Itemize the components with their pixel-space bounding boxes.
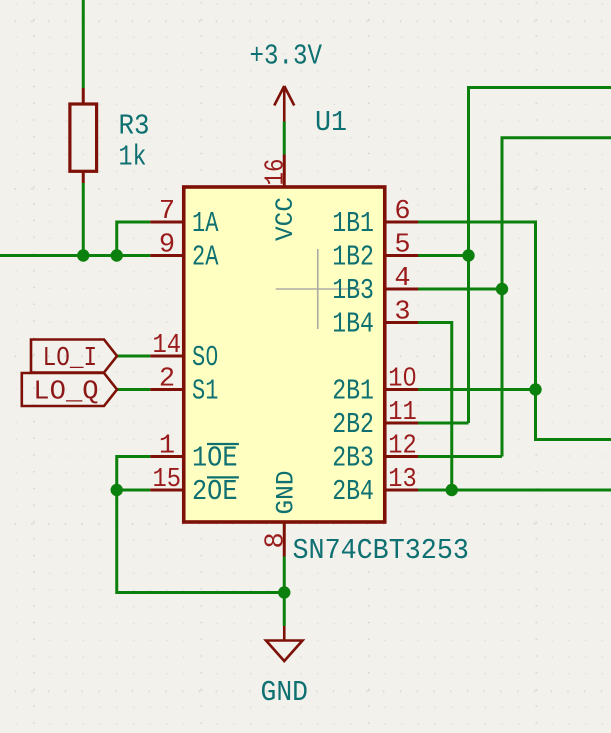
svg-text:LO_I: LO_I <box>43 344 98 374</box>
wire: LO_I to S0 <box>117 355 150 358</box>
pin 2 stub <box>150 388 184 391</box>
pin 6 stub <box>385 221 419 224</box>
svg-text:2B3: 2B3 <box>332 442 374 475</box>
svg-text:4: 4 <box>394 264 410 294</box>
svg-text:GND: GND <box>272 471 301 515</box>
svg-text:7: 7 <box>159 197 175 227</box>
svg-text:2B2: 2B2 <box>332 408 374 441</box>
svg-text:15: 15 <box>153 465 182 495</box>
svg-text:SN74CBT3253: SN74CBT3253 <box>293 534 469 567</box>
svg-text:8: 8 <box>262 532 292 548</box>
junction 1A/2A <box>111 249 123 261</box>
wire: 2B4 to right edge <box>416 489 611 492</box>
wire: 1B4 down to 2B4 <box>416 323 452 491</box>
svg-text:5: 5 <box>394 230 410 260</box>
svg-text:11: 11 <box>388 398 417 428</box>
junction 1B2/2B2 <box>462 249 474 261</box>
pin 15 stub <box>150 489 184 492</box>
wire: 1OE loop down to GND net <box>117 457 285 593</box>
wire: 2B1 <box>416 388 536 391</box>
op IC body U1 <box>184 187 385 522</box>
wire: 2A horizontal from left edge <box>0 254 150 257</box>
pin 5 stub <box>385 254 419 257</box>
pin 9 stub <box>150 254 184 257</box>
svg-text:S1: S1 <box>192 375 218 408</box>
pin 3 stub <box>385 321 419 324</box>
svg-text:2B1: 2B1 <box>332 375 374 408</box>
wire: 2B3 <box>416 455 503 458</box>
svg-text:9: 9 <box>159 230 175 260</box>
wire: VCC pin16 up <box>283 122 286 155</box>
junction R3/2A <box>77 249 89 261</box>
svg-text:2B4: 2B4 <box>332 475 374 508</box>
pin 7 stub <box>150 221 184 224</box>
pin 8 stub <box>283 523 286 557</box>
wire: 2B2 <box>416 422 469 425</box>
global label LO_I <box>31 340 117 373</box>
junction 1B4/2B4 <box>446 484 458 496</box>
svg-text:1B2: 1B2 <box>332 241 374 274</box>
svg-text:+3.3V: +3.3V <box>250 40 323 73</box>
wire: 1B2 to vertical <box>416 254 469 257</box>
svg-text:GND: GND <box>261 676 309 709</box>
junction GND net <box>278 586 290 598</box>
svg-text:6: 6 <box>394 197 410 227</box>
svg-text:1A: 1A <box>192 207 219 240</box>
wire: 2OE stub <box>117 489 151 492</box>
svg-text:1OE: 1OE <box>192 442 238 475</box>
resistor R3 bottom pin <box>82 171 85 183</box>
ground symbol <box>266 626 303 661</box>
pin 12 stub <box>385 455 419 458</box>
svg-text:13: 13 <box>388 465 417 495</box>
resistor R3 top pin <box>82 88 85 104</box>
svg-text:1: 1 <box>159 431 175 461</box>
svg-text:12: 12 <box>388 431 417 461</box>
svg-text:10: 10 <box>388 364 417 394</box>
junction 1OE/2OE <box>111 484 123 496</box>
svg-text:LO_Q: LO_Q <box>33 378 98 408</box>
wire: 1B3 to vertical <box>416 288 503 291</box>
svg-text:3: 3 <box>394 297 410 327</box>
wire: vertical net B2 with exit top <box>469 88 611 424</box>
pin 4 stub <box>385 288 419 291</box>
pin 13 stub <box>385 489 419 492</box>
svg-text:R3: R3 <box>119 110 150 143</box>
wire: GND pin8 down <box>283 557 286 627</box>
pin 14 stub <box>150 355 184 358</box>
svg-text:16: 16 <box>262 159 292 186</box>
svg-text:2: 2 <box>159 364 175 394</box>
svg-text:1B1: 1B1 <box>332 207 374 240</box>
junction 1B1/2B1 <box>529 383 541 395</box>
svg-text:1B4: 1B4 <box>332 308 374 341</box>
svg-text:14: 14 <box>153 331 182 361</box>
power symbol +3.3V <box>274 86 294 122</box>
cursor crosshair <box>276 249 360 329</box>
wire: vertical net B3 with exit top <box>502 138 611 457</box>
svg-text:VCC: VCC <box>271 197 300 241</box>
svg-text:2A: 2A <box>192 241 219 274</box>
pin 1 stub <box>150 455 184 458</box>
wire: 1B1 right, down, to right edge <box>416 222 611 440</box>
wire: 1A jog <box>117 222 151 256</box>
pin 11 stub <box>385 422 419 425</box>
wire: vertical into R3 top <box>82 0 85 88</box>
pin 16 stub <box>283 155 286 189</box>
global label LO_Q <box>22 373 117 406</box>
svg-text:1B3: 1B3 <box>332 274 374 307</box>
resistor R3 <box>70 104 97 171</box>
wire: LO_Q to S1 <box>117 388 150 391</box>
junction 1B3/2B3 <box>496 283 508 295</box>
wire: R3 bottom to 2A bus <box>82 183 85 256</box>
svg-text:2OE: 2OE <box>192 475 238 508</box>
svg-text:U1: U1 <box>315 106 347 139</box>
pin 10 stub <box>385 388 419 391</box>
svg-text:1k: 1k <box>119 141 147 174</box>
